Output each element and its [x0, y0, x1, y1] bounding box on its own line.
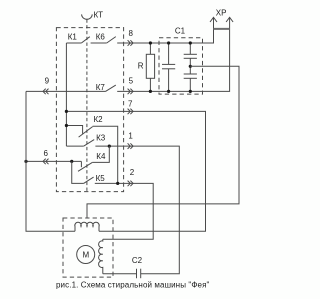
- timer unit dashed enclosure: [56, 28, 123, 192]
- motor M circle: [77, 246, 95, 264]
- wire: K1 feed vertical: [65, 43, 67, 146]
- capacitor C1b lower: [184, 66, 197, 91]
- wire C1 mid tap to motor winding tap: [87, 66, 239, 218]
- junction dot wire6 branch: [70, 160, 73, 163]
- svg-text:5: 5: [129, 77, 134, 86]
- motor main winding: [75, 222, 99, 231]
- timer KT actuator arc: [82, 14, 93, 19]
- connector pins wire 5: [128, 89, 134, 95]
- svg-text:К4: К4: [96, 152, 106, 161]
- wire 7: [66, 111, 205, 231]
- wire 5 row to XP right pin: [117, 17, 229, 91]
- contact K5: [72, 161, 94, 183]
- svg-text:К1: К1: [68, 33, 78, 42]
- wire 8 to XP left pin: [117, 29, 213, 43]
- junction dot wire6 left: [24, 160, 27, 163]
- wire 2: [95, 183, 153, 239]
- wire aux winding bottom to C2: [103, 273, 137, 275]
- junction dot R bottom: [149, 90, 152, 93]
- contact K7: [106, 85, 116, 91]
- capacitor block C1 dashed enclosure: [159, 38, 203, 94]
- capacitor C2: [137, 269, 141, 279]
- junction dot C1a bottom: [167, 90, 170, 93]
- svg-text:КТ: КТ: [94, 11, 104, 20]
- svg-text:К7: К7: [96, 83, 106, 92]
- connector pins wire 8: [128, 40, 134, 46]
- junction dot K2 feed: [65, 124, 68, 127]
- junction dot R top: [149, 41, 152, 44]
- motor aux winding: [99, 239, 103, 273]
- capacitor C1a: [162, 43, 175, 91]
- junction dot wire7: [65, 110, 68, 113]
- svg-text:рис.1. Схема стиральной машины: рис.1. Схема стиральной машины "Фея": [56, 281, 210, 290]
- svg-text:6: 6: [43, 149, 48, 158]
- motor dashed enclosure: [63, 218, 113, 277]
- svg-text:2: 2: [130, 168, 135, 177]
- wire 9 and K7 row: [26, 90, 106, 92]
- contact K2 (break): [66, 126, 92, 138]
- connector pins wire 9: [43, 89, 49, 95]
- svg-text:C1: C1: [175, 27, 186, 36]
- contact K1: [66, 37, 89, 43]
- svg-text:1: 1: [128, 131, 133, 140]
- plug XP: [210, 17, 233, 43]
- svg-text:7: 7: [128, 100, 133, 109]
- connector pins wire 6: [43, 159, 49, 165]
- svg-text:ХР: ХР: [216, 8, 227, 17]
- svg-text:К6: К6: [96, 33, 106, 42]
- junction dot C1a top: [167, 41, 170, 44]
- junction dot wire2: [116, 182, 119, 185]
- svg-text:К3: К3: [96, 134, 106, 143]
- contact K3: [66, 140, 94, 147]
- svg-text:М: М: [82, 250, 89, 259]
- contact K6: [91, 37, 116, 43]
- svg-text:9: 9: [45, 76, 50, 85]
- resistor R: [146, 43, 154, 91]
- connector pins wire 7: [128, 109, 134, 115]
- capacitor C1b upper: [184, 43, 197, 66]
- junction dot C1b top: [189, 41, 192, 44]
- svg-text:8: 8: [128, 29, 133, 38]
- contact K4 (break): [78, 161, 92, 171]
- junction dot wire1: [108, 145, 111, 148]
- wire 6: [26, 160, 81, 162]
- KT mechanical linkage dashed line: [86, 19, 88, 191]
- wire K2 to wire2: [93, 126, 118, 183]
- svg-text:R: R: [138, 62, 144, 71]
- svg-text:К5: К5: [96, 174, 106, 183]
- wire K4 to wire1: [92, 146, 109, 162]
- junction dot C1b bottom: [189, 90, 192, 93]
- svg-text:С2: С2: [132, 256, 143, 265]
- junction dot C1b mid: [189, 65, 192, 68]
- connector pins wire 1: [128, 143, 134, 149]
- svg-text:К2: К2: [94, 115, 104, 124]
- wire 1: [95, 146, 179, 274]
- connector pins wire 2: [128, 181, 134, 187]
- left bus vertical wire: [26, 91, 75, 231]
